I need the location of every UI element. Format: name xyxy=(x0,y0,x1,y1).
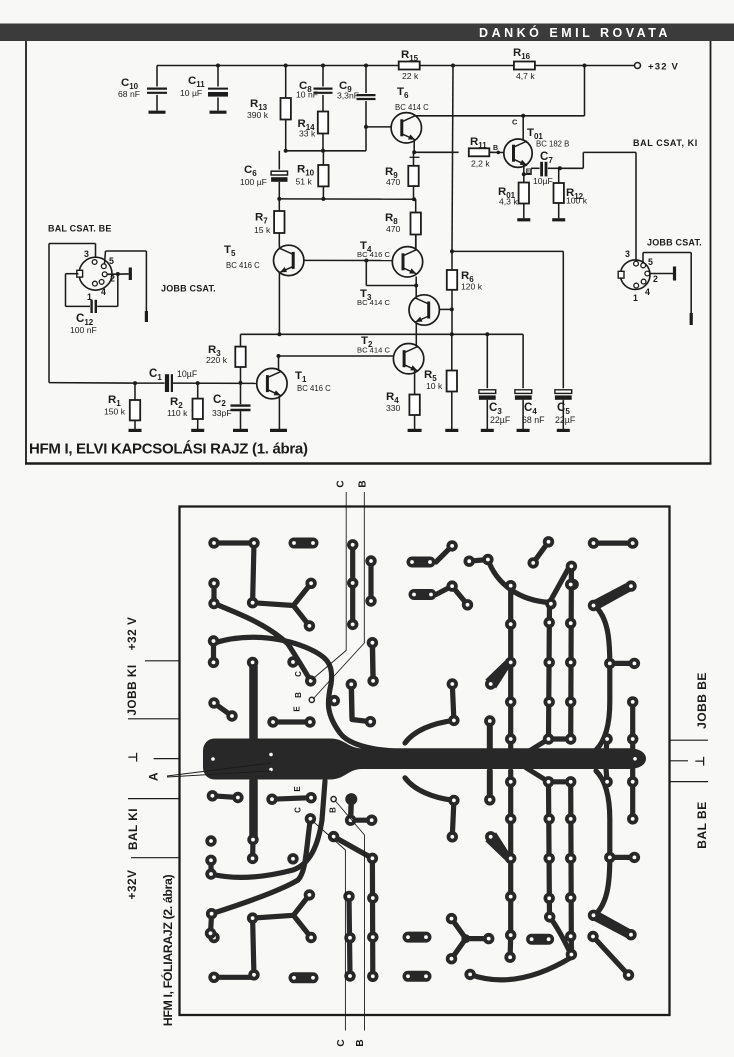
svg-text:C: C xyxy=(294,671,303,677)
node T01 base xyxy=(493,145,500,154)
svg-text:120 k: 120 k xyxy=(461,282,483,292)
node T4 emitter junction xyxy=(414,284,418,288)
PCB caption xyxy=(0,0,1,1)
wire T01 collector stub xyxy=(512,116,523,140)
wire pin2 output shield xyxy=(650,273,674,275)
ground for R01 xyxy=(517,218,530,221)
resistor R4 xyxy=(386,391,420,429)
transistor T01 xyxy=(504,127,570,167)
node C9/T6 base xyxy=(364,125,368,129)
node base link xyxy=(364,259,368,263)
svg-text:470: 470 xyxy=(386,224,401,234)
svg-text:E: E xyxy=(293,706,302,712)
svg-text:4: 4 xyxy=(101,287,106,297)
svg-text:BC 182 B: BC 182 B xyxy=(536,140,569,149)
svg-text:68 nF: 68 nF xyxy=(118,89,140,99)
resistor R16 xyxy=(513,47,535,81)
ground for T1 emitter xyxy=(270,429,287,432)
svg-text:1: 1 xyxy=(633,293,638,303)
wire C9 to bias row xyxy=(365,127,367,151)
svg-text:BC 416 C: BC 416 C xyxy=(226,261,260,270)
transistor T4 xyxy=(357,240,423,277)
svg-text:110 k: 110 k xyxy=(167,408,188,418)
transistor T2 xyxy=(357,335,424,374)
svg-text:150 k: 150 k xyxy=(104,407,126,417)
wire base to T4 emitter xyxy=(366,261,416,286)
ground for C10 xyxy=(149,111,166,114)
svg-text:BC 414 C: BC 414 C xyxy=(357,346,390,355)
PCB traces upper half xyxy=(0,0,1,1)
PCB pads lower half xyxy=(0,0,1,1)
resistor R8 xyxy=(385,199,421,249)
svg-text:B: B xyxy=(355,1039,366,1046)
resistor R1 xyxy=(104,383,140,429)
svg-text:4,7 k: 4,7 k xyxy=(516,71,535,81)
wire collector row xyxy=(241,334,524,388)
wire input row xyxy=(49,244,257,384)
svg-text:⊥: ⊥ xyxy=(126,752,140,763)
+32V terminal xyxy=(635,62,680,73)
capacitor C2 xyxy=(212,383,251,429)
terminal shield tick xyxy=(129,268,132,281)
wire T4 collector to R8 xyxy=(415,235,417,249)
wire pin2 shield xyxy=(107,273,129,275)
svg-text:100 k: 100 k xyxy=(566,196,588,206)
leader lines A xyxy=(0,0,1,1)
connector JOBB CSAT (DIN) xyxy=(618,249,658,303)
svg-text:4: 4 xyxy=(645,287,650,297)
svg-text:100 nF: 100 nF xyxy=(70,325,97,335)
node T1 collector xyxy=(277,354,281,358)
node T3 base/R6 xyxy=(450,307,454,311)
svg-text:10 k: 10 k xyxy=(426,381,443,391)
wire T4 emitter xyxy=(415,277,417,286)
node R6 top xyxy=(450,249,454,253)
PCB traces lower half xyxy=(0,0,1,1)
transistor T1 xyxy=(257,368,331,398)
connector BAL CSAT BE (DIN) xyxy=(77,249,115,302)
ground for C3 xyxy=(481,429,494,432)
svg-text:220 k: 220 k xyxy=(206,355,228,365)
terminal pin5 end xyxy=(690,313,693,325)
wire C12 loop xyxy=(66,274,118,307)
wire T6 emitter to R11 xyxy=(414,151,458,153)
capacitor C9 xyxy=(337,66,376,127)
wire T1 emitter xyxy=(278,397,280,430)
svg-text:33pF: 33pF xyxy=(212,408,232,418)
label BAL CSAT BE xyxy=(48,224,112,234)
svg-text:10µF: 10µF xyxy=(533,176,553,186)
svg-text:5: 5 xyxy=(648,257,653,267)
svg-text:JOBB KI: JOBB KI xyxy=(125,664,139,715)
wire T01 emitter xyxy=(524,165,531,176)
resistor R6 xyxy=(447,251,483,334)
PCB foil group xyxy=(125,480,709,1046)
svg-text:22 k: 22 k xyxy=(402,71,419,81)
resistor R11 xyxy=(469,136,504,169)
wire T2 base xyxy=(279,355,394,357)
node collector row junctions xyxy=(277,332,489,336)
label BAL CSAT KI xyxy=(633,138,698,148)
terminal JOBB input end xyxy=(145,311,148,322)
svg-text:E: E xyxy=(293,786,302,792)
svg-text:JOBB CSAT.: JOBB CSAT. xyxy=(647,238,702,248)
PCB transistor pad letters lower xyxy=(0,0,1,1)
node pin2 junction xyxy=(116,272,120,276)
svg-text:BAL CSAT. BE: BAL CSAT. BE xyxy=(48,224,112,234)
svg-text:HFM I, FÓLIARAJZ (2. ábra): HFM I, FÓLIARAJZ (2. ábra) xyxy=(160,875,175,1027)
label JOBB CSAT right xyxy=(647,238,702,248)
capacitor C3 xyxy=(479,334,511,429)
svg-text:+32V: +32V xyxy=(125,870,139,900)
capacitor C1 xyxy=(149,368,198,392)
wire T5-T4 base link xyxy=(304,259,392,261)
transistor T6 xyxy=(391,86,429,143)
svg-text:B: B xyxy=(329,807,338,813)
resistor R12 xyxy=(554,168,588,218)
wire T3 collector xyxy=(415,286,417,298)
svg-text:22µF: 22µF xyxy=(490,415,511,425)
transistor T5 xyxy=(224,244,304,276)
svg-text:C: C xyxy=(512,118,518,127)
header bar xyxy=(0,24,734,42)
svg-text:51 k: 51 k xyxy=(296,177,313,187)
PCB ground spine foil xyxy=(0,0,1,1)
resistor R13 xyxy=(247,66,291,152)
wire T5 emitter xyxy=(278,272,280,334)
svg-text:3: 3 xyxy=(84,249,89,259)
node input row junctions xyxy=(133,381,243,385)
leader lines top C B xyxy=(0,0,1,1)
PCB transistor pad letters upper xyxy=(0,0,1,1)
wire bias row xyxy=(286,150,366,152)
svg-text:+32 V: +32 V xyxy=(125,617,139,651)
capacitor C7 xyxy=(524,151,560,186)
svg-text:C: C xyxy=(336,480,347,487)
ground for R12 xyxy=(552,218,565,221)
capacitor C4 xyxy=(515,390,545,429)
wire T3 emitter to T2 xyxy=(415,323,417,346)
wire T3 base xyxy=(439,308,451,310)
svg-text:BAL CSAT, KI: BAL CSAT, KI xyxy=(633,138,698,148)
node T6 emitter xyxy=(412,150,416,154)
wire emitter row xyxy=(279,198,414,200)
resistor R01 xyxy=(498,174,529,218)
svg-text:B: B xyxy=(294,692,303,698)
wire T6 base xyxy=(366,126,391,128)
leader lines bottom C B xyxy=(0,0,1,1)
svg-text:BAL BE: BAL BE xyxy=(695,801,709,848)
svg-text:15 k: 15 k xyxy=(254,225,271,235)
wire pin5 output xyxy=(643,253,691,314)
PCB board outline xyxy=(180,507,670,1016)
PCB pads upper half xyxy=(0,0,1,1)
node R12 top xyxy=(558,166,562,170)
ground for C4 xyxy=(517,429,530,432)
ground for R4 xyxy=(408,429,422,432)
svg-text:BC 414 C: BC 414 C xyxy=(395,103,429,112)
ground for R1 xyxy=(129,429,142,432)
svg-text:3,3nF: 3,3nF xyxy=(337,91,359,101)
svg-text:+32 V: +32 V xyxy=(648,62,679,73)
node T01 collector xyxy=(521,114,525,118)
node T01 emitter xyxy=(522,172,526,176)
ground for C2 xyxy=(233,429,248,432)
svg-text:⊥: ⊥ xyxy=(693,756,707,767)
svg-text:10µF: 10µF xyxy=(177,369,198,379)
wire T6 emitter xyxy=(413,141,415,152)
node emitter row junctions xyxy=(277,197,416,201)
ground for C11 xyxy=(210,111,227,114)
svg-text:B: B xyxy=(358,480,369,487)
svg-text:C: C xyxy=(336,1039,347,1046)
wire emitter tick xyxy=(410,156,420,158)
leader labels bottom C B xyxy=(0,0,1,1)
schematic frame xyxy=(25,41,712,464)
wire rail to T01 collector xyxy=(584,66,586,116)
schematic title xyxy=(29,441,308,458)
capacitor C5 xyxy=(555,390,576,429)
svg-text:22µF: 22µF xyxy=(555,415,576,425)
wire feedback to C5 xyxy=(452,251,563,388)
svg-text:B: B xyxy=(493,145,498,152)
resistor R3 xyxy=(206,344,246,383)
capacitor C11 xyxy=(180,66,228,111)
svg-text:3: 3 xyxy=(625,249,630,259)
svg-text:470: 470 xyxy=(386,177,401,187)
node rail junctions xyxy=(216,64,587,68)
svg-text:A: A xyxy=(147,772,161,781)
svg-text:DANKÓ EMIL ROVATA: DANKÓ EMIL ROVATA xyxy=(479,25,671,40)
svg-text:68 nF: 68 nF xyxy=(522,415,545,425)
svg-text:330: 330 xyxy=(386,403,401,413)
svg-text:5: 5 xyxy=(109,256,114,266)
capacitor C6 xyxy=(240,151,288,199)
wire T6 collector line xyxy=(416,115,585,117)
svg-text:390 k: 390 k xyxy=(247,110,269,120)
right side labels xyxy=(0,0,1,1)
svg-text:10 µF: 10 µF xyxy=(180,88,202,98)
wire T5 collector xyxy=(278,246,280,249)
wire T2 emitter to R4 xyxy=(414,371,416,395)
svg-text:2: 2 xyxy=(653,274,658,284)
wire T1 collector xyxy=(278,356,280,371)
ground for C5 xyxy=(557,429,570,432)
wire JOBB input from pin5 xyxy=(105,251,147,311)
label JOBB CSAT left xyxy=(161,284,216,294)
resistor R7 xyxy=(254,199,285,246)
svg-text:10 nF: 10 nF xyxy=(296,90,318,100)
capacitor C10 xyxy=(118,66,167,111)
resistor R10 xyxy=(296,151,329,199)
wire output to BAL CSAT KI xyxy=(560,152,636,259)
wire supply dropper vertical xyxy=(452,66,453,252)
node bias row junctions xyxy=(284,149,325,153)
wire +32V rail xyxy=(157,65,634,67)
resistor R9 xyxy=(385,152,419,199)
svg-text:JOBB CSAT.: JOBB CSAT. xyxy=(161,284,216,294)
svg-text:4,3 k: 4,3 k xyxy=(499,197,518,207)
svg-text:BC 416 C: BC 416 C xyxy=(357,250,390,259)
left side labels xyxy=(0,0,1,1)
resistor R15 xyxy=(399,49,420,81)
resistor R5 xyxy=(424,334,457,429)
svg-text:BAL KI: BAL KI xyxy=(126,808,140,850)
ground for R2 xyxy=(191,429,204,432)
svg-text:2,2 k: 2,2 k xyxy=(471,159,490,169)
svg-text:33 k: 33 k xyxy=(299,129,316,139)
transistor T3 xyxy=(357,288,439,325)
svg-text:BC 416 C: BC 416 C xyxy=(297,384,331,393)
ground for R5 xyxy=(445,429,458,432)
svg-text:100 µF: 100 µF xyxy=(240,177,267,187)
capacitor C12 xyxy=(70,300,97,335)
resistor R14 xyxy=(298,112,329,152)
svg-text:JOBB BE: JOBB BE xyxy=(695,672,709,729)
svg-text:C: C xyxy=(294,807,303,813)
wire BAL input from pin3 xyxy=(49,244,96,258)
resistor R2 xyxy=(167,383,203,429)
capacitor C8 xyxy=(296,66,333,112)
svg-text:BC 414 C: BC 414 C xyxy=(357,298,390,307)
svg-text:HFM I, ELVI KAPCSOLÁSI RAJZ (1: HFM I, ELVI KAPCSOLÁSI RAJZ (1. ábra) xyxy=(29,441,308,458)
terminal output shield tick xyxy=(673,267,676,281)
leader labels top C B xyxy=(0,0,1,1)
